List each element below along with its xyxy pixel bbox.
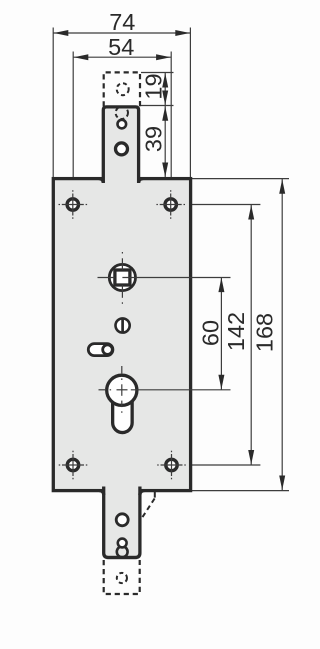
svg-text:60: 60	[197, 320, 223, 346]
svg-text:19: 19	[141, 73, 167, 99]
svg-text:74: 74	[109, 9, 135, 35]
svg-text:168: 168	[252, 313, 278, 352]
svg-text:54: 54	[108, 34, 134, 60]
svg-text:142: 142	[223, 312, 249, 351]
svg-text:39: 39	[141, 126, 167, 152]
